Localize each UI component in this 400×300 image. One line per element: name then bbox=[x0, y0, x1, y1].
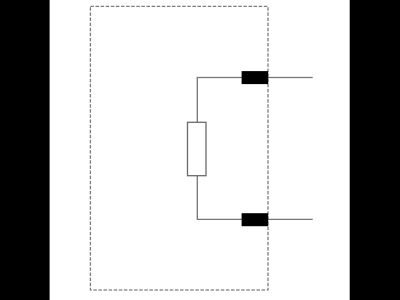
wire (bottom: resistor bottom to lower terminal and out) bbox=[197, 176, 312, 220]
wire (top: resistor top to upper terminal and out) bbox=[197, 78, 312, 123]
enclosure dashed box bbox=[90, 6, 268, 290]
terminal pad (bottom) bbox=[242, 213, 269, 226]
terminal pad (top) bbox=[242, 71, 269, 84]
resistor R1 bbox=[188, 122, 207, 175]
